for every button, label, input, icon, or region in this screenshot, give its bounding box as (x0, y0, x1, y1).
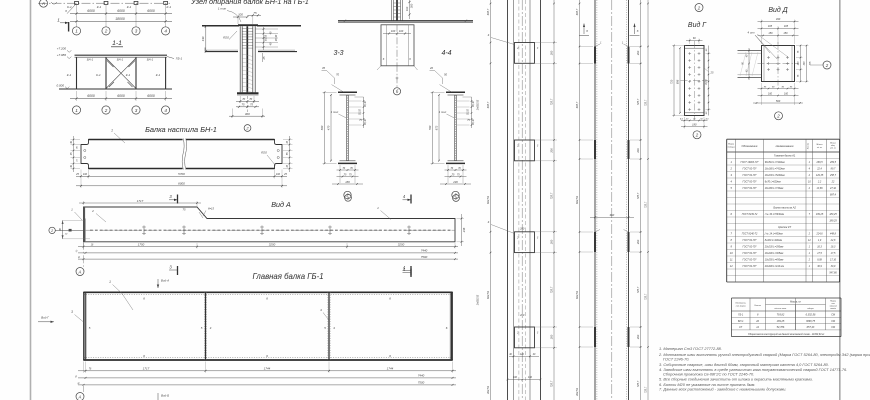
svg-text:300: 300 (245, 112, 250, 116)
Vid A section flag 3 bottom (169, 265, 178, 276)
strip 1 inner 200 spacing labels (519, 228, 525, 318)
svg-text:6: 6 (143, 297, 145, 301)
svg-text:Главная балка А1: Главная балка А1 (774, 154, 796, 158)
strip 1 bottom dims 40 120 40 and 160 160 (507, 353, 542, 380)
svg-text:180: 180 (692, 122, 697, 126)
svg-text:10: 10 (808, 181, 811, 184)
svg-text:1744: 1744 (264, 367, 271, 371)
svg-text:70: 70 (336, 73, 339, 77)
svg-text:80: 80 (772, 86, 775, 88)
BN-1 right dim stack (283, 136, 293, 172)
BN-1 bubble 2 (right of title) (244, 125, 251, 132)
svg-text:1744: 1744 (387, 367, 394, 371)
svg-text:2: 2 (104, 108, 108, 113)
svg-text:6х70 L=620мм: 6х70 L=620мм (765, 181, 781, 184)
strip 2 edge weld segments at plate levels (595, 47, 629, 348)
svg-text:70: 70 (249, 97, 252, 101)
svg-text:5700: 5700 (178, 172, 185, 176)
Vid G top dim 60 (686, 37, 703, 44)
svg-text:К-1: К-1 (67, 5, 72, 9)
svg-text:70: 70 (350, 167, 353, 170)
svg-text:672: 672 (435, 125, 439, 130)
plan: axis circle A (40, 0, 48, 7)
svg-text:5: 5 (201, 326, 203, 330)
svg-text:18000: 18000 (115, 17, 125, 21)
Vid A bottom dim row 7440 (78, 249, 458, 254)
svg-text:6: 6 (266, 297, 268, 301)
Vid A left bubble 2 with leader (49, 227, 84, 236)
section 1-1 BN-1 labels (87, 57, 154, 61)
svg-text:55,55: 55,55 (265, 34, 268, 41)
svg-text:3: 3 (135, 29, 138, 34)
GB-1 leaders 1 3 4 (71, 280, 328, 322)
strip 2 outer right dim line (645, 0, 649, 400)
svg-text:Масса, кг: Масса, кг (790, 301, 802, 304)
svg-text:605,7: 605,7 (575, 8, 579, 15)
svg-text:1-1: 1-1 (112, 40, 122, 47)
svg-text:ГОСТ 82-70*: ГОСТ 82-70* (743, 239, 757, 242)
GB-1 end plates (85, 292, 452, 360)
svg-text:7. Данные всех расположений -: 7. Данные всех расположений - заводские … (659, 386, 787, 391)
svg-text:15: 15 (75, 249, 79, 253)
svg-text:200: 200 (636, 239, 640, 245)
svg-text:76: 76 (89, 369, 92, 371)
svg-text:70: 70 (450, 167, 453, 170)
BN-1 left dim stack (70, 136, 80, 172)
svg-text:4: 4 (164, 29, 167, 34)
GB-1 stiffeners (204, 292, 330, 360)
svg-text:15: 15 (286, 140, 289, 143)
strip 1 right dim extension ticks (535, 42, 558, 349)
section 1-1 K-1 column labels (67, 73, 161, 77)
svg-text:2: 2 (91, 209, 94, 213)
svg-text:ГОСТ 82-70*: ГОСТ 82-70* (743, 187, 757, 190)
svg-text:6,352,56: 6,352,56 (806, 314, 816, 317)
notes block (658, 346, 870, 391)
detail title: Uzel opiraniya balok BN-1 na GB-1 (top-cut) (190, 0, 309, 6)
BN-1 bottom dim row 6000 (76, 179, 287, 189)
svg-text:ГОСТ 82-70*: ГОСТ 82-70* (743, 259, 757, 262)
svg-text:40,40: 40,40 (364, 118, 367, 124)
svg-text:Главная балка ГБ-1: Главная балка ГБ-1 (252, 272, 323, 281)
svg-text:Обозначение: Обозначение (742, 144, 758, 148)
svg-text:Балка настила А2: Балка настила А2 (773, 206, 796, 210)
svg-text:10: 10 (730, 251, 733, 255)
svg-text:3: 3 (169, 265, 172, 270)
svg-text:6: 6 (266, 354, 268, 358)
svg-text:160: 160 (768, 92, 773, 95)
svg-text:8х200 L=200мм: 8х200 L=200мм (765, 239, 783, 242)
svg-text:1. Материал Ст3 ГОСТ 27772-88.: 1. Материал Ст3 ГОСТ 27772-88. (659, 346, 722, 351)
svg-text:позиции: позиции (728, 146, 736, 148)
svg-text:А: А (78, 269, 82, 274)
svg-text:16х180 L=7410мм: 16х180 L=7410мм (765, 168, 785, 171)
Vid A bottom dim row 1750 3250 3250 (78, 242, 458, 248)
section 1-1 columns (77, 57, 166, 89)
svg-text:448,8: 448,8 (830, 233, 837, 236)
Vid D weld leader 4 sht (748, 31, 788, 60)
Vid D left beam stub (738, 51, 762, 78)
svg-text:0.000: 0.000 (56, 84, 64, 88)
Vid A section flag 4 bottom (403, 265, 412, 276)
svg-text:завода: завода (829, 307, 836, 310)
svg-text:12: 12 (808, 239, 811, 242)
svg-text:75: 75 (242, 103, 245, 107)
svg-text:Вид Г: Вид Г (41, 316, 49, 320)
strip 1 hidden web dashed pair (519, 0, 526, 400)
Vid A bolt row dashes (90, 229, 452, 231)
svg-text:165: 165 (784, 25, 789, 28)
svg-text:50: 50 (700, 118, 703, 120)
svg-text:2: 2 (104, 29, 108, 34)
section 1-1 axis bubbles 1-4 (72, 106, 169, 114)
svg-text:258,7: 258,7 (829, 174, 837, 177)
svg-text:4: 4 (730, 180, 732, 184)
svg-text:17,5: 17,5 (831, 252, 836, 255)
svg-text:2: 2 (516, 236, 519, 239)
plan: dimension line 6000x3 (70, 9, 172, 15)
BN-1 beam outline with notched ends (81, 140, 282, 169)
svg-text:2: 2 (776, 114, 780, 119)
Vid D left dim stack (743, 48, 750, 80)
svg-text:602,53: 602,53 (486, 290, 490, 298)
svg-text:3868,75: 3868,75 (806, 320, 816, 323)
svg-text:75: 75 (798, 50, 800, 53)
section 1-1 cross bracing between axes 2-3 (106, 58, 136, 89)
svg-text:2: 2 (695, 133, 699, 138)
detail D: right dim of column 100 (405, 0, 414, 19)
svg-text:85: 85 (764, 86, 767, 88)
svg-text:289,5: 289,5 (829, 161, 837, 164)
svg-text:75: 75 (359, 119, 362, 122)
svg-text:7500: 7500 (418, 381, 425, 385)
detail C: right beam BN-1 flange lines (257, 26, 301, 52)
section 1-1 ground line and 0.000 mark (56, 84, 172, 90)
svg-text:236: 236 (462, 227, 466, 233)
svg-text:200: 200 (636, 334, 640, 340)
svg-text:17,16: 17,16 (830, 259, 837, 262)
svg-text:ГОСТ 82-70*: ГОСТ 82-70* (743, 252, 757, 255)
detail C: leader 1 tip (218, 7, 241, 23)
svg-text:55,55: 55,55 (360, 108, 362, 114)
svg-text:К-1: К-1 (167, 5, 172, 9)
svg-text:2. Монтажные швы выполнять руч: 2. Монтажные швы выполнять ручной электр… (658, 352, 870, 357)
svg-text:БН-1: БН-1 (738, 320, 744, 323)
svg-text:602,53: 602,53 (486, 195, 490, 203)
section 4-4 top-left weld flag dims (429, 66, 452, 92)
svg-text:общая: общая (807, 308, 814, 310)
svg-text:3: 3 (537, 332, 539, 335)
svg-text:2,2: 2,2 (817, 181, 822, 184)
strip 1 splice plates (515, 43, 539, 348)
svg-text:12: 12 (756, 326, 759, 329)
svg-text:200: 200 (519, 314, 525, 317)
svg-text:50: 50 (444, 73, 447, 77)
svg-text:Вид А: Вид А (271, 200, 291, 209)
svg-text:4: 4 (333, 326, 335, 330)
svg-text:2: 2 (808, 187, 811, 190)
svg-text:40: 40 (77, 255, 81, 259)
detail D: dims 100 100 inside box (383, 29, 411, 34)
svg-text:120: 120 (520, 353, 525, 356)
svg-text:4: 4 (210, 326, 212, 330)
GB-1 title: Glavnaya balka GB-1 (252, 272, 323, 281)
svg-text:2: 2 (808, 259, 811, 262)
svg-text:710: 710 (670, 79, 674, 84)
section 4-4 right bolt dim stack (457, 97, 475, 128)
Vid G bottom dims 40 50 50 40 / 180 (680, 117, 709, 129)
svg-text:696: 696 (676, 79, 680, 84)
svg-text:СМ: СМ (831, 326, 836, 329)
svg-text:б: б (396, 89, 399, 94)
svg-text:90: 90 (693, 118, 696, 120)
svg-text:3250: 3250 (398, 242, 405, 246)
svg-text:БН-1: БН-1 (147, 57, 154, 61)
svg-text:200: 200 (550, 148, 554, 154)
svg-text:Кол-во: Кол-во (808, 142, 810, 149)
Vid G plate rectangle (685, 46, 705, 116)
Vid A top dim 1717 (79, 199, 201, 207)
Vid A cross ticks on bolt row (142, 226, 411, 236)
svg-text:2: 2 (516, 47, 519, 50)
svg-text:Общая масса конструкций на дан: Общая масса конструкций на данной монтаж… (748, 333, 825, 336)
plan: column K-1 marks on axis (75, 1, 168, 4)
svg-text:40: 40 (509, 353, 512, 356)
svg-text:725,7: 725,7 (550, 380, 554, 387)
Vid A leaders 1 2 (71, 206, 391, 222)
svg-text:602,53: 602,53 (575, 195, 579, 203)
svg-text:40: 40 (746, 54, 749, 57)
lower table header texts (735, 300, 837, 310)
Vid G bottom bubble 2 (693, 131, 701, 139)
svg-text:725,7: 725,7 (645, 99, 648, 106)
svg-text:30,9: 30,9 (817, 265, 822, 268)
BN-1 break mark (182, 138, 186, 169)
sheet left frame line (30, 0, 32, 400)
svg-text:1: 1 (809, 161, 811, 164)
svg-text:40,40: 40,40 (472, 100, 475, 106)
Vid G left dims 710 696 (670, 45, 687, 117)
svg-text:6: 6 (389, 297, 391, 301)
Vid D top dim rows 330 / 165 165 / 150 150 (758, 17, 799, 44)
svg-text:45: 45 (76, 146, 79, 149)
svg-text:Вид А: Вид А (161, 279, 169, 283)
svg-text:3: 3 (537, 145, 539, 148)
svg-text:ГБ-1: ГБ-1 (176, 57, 183, 61)
svg-text:СМ: СМ (831, 320, 836, 323)
section 4-4 bottom flange (446, 161, 465, 164)
svg-text:ГОСТ 82-70*: ГОСТ 82-70* (743, 181, 757, 184)
section 3-3 leader 1 tip (331, 110, 347, 118)
svg-text:ГОСТ 82-70*: ГОСТ 82-70* (743, 168, 757, 171)
strip dim lines top tick marks (490, 3, 649, 5)
section 3-3 title (333, 50, 343, 57)
svg-text:3: 3 (730, 173, 732, 177)
svg-text:8х70: 8х70 (706, 79, 708, 85)
svg-text:100: 100 (83, 173, 88, 176)
svg-text:2: 2 (729, 167, 732, 171)
svg-text:4: 4 (403, 267, 406, 272)
svg-text:3250: 3250 (269, 242, 276, 246)
svg-text:1 тип: 1 тип (331, 110, 339, 114)
strip 1 centre axis dash-dot (521, 0, 523, 400)
svg-text:А: А (41, 1, 45, 6)
svg-text:725,7: 725,7 (550, 192, 554, 199)
svg-text:300: 300 (410, 3, 414, 8)
svg-text:200: 200 (550, 239, 554, 245)
svg-text:7440: 7440 (421, 249, 428, 253)
plan: section mark 1 flag (57, 18, 68, 32)
svg-text:4: 4 (809, 168, 811, 171)
svg-text:100: 100 (391, 29, 396, 33)
section 3-3 top-left weld flag dims (322, 66, 344, 92)
Vid A taper label 75 and weld flag (183, 207, 215, 219)
svg-text:725,7: 725,7 (550, 98, 554, 105)
svg-text:7440: 7440 (418, 374, 425, 378)
strip 1 (plan of GB-1): flange edge lines (508, 0, 541, 400)
svg-text:500: 500 (320, 125, 324, 130)
svg-text:2х602,53: 2х602,53 (477, 99, 480, 111)
svg-text:1: 1 (75, 108, 78, 113)
svg-text:б=15: б=15 (208, 207, 215, 211)
svg-text:1: 1 (377, 206, 379, 210)
svg-text:К-1: К-1 (96, 73, 101, 77)
detail D: leader ticks at box bottom (377, 57, 418, 70)
detail C: R20 label (223, 31, 237, 40)
svg-text:2: 2 (697, 5, 701, 10)
svg-text:70: 70 (458, 167, 461, 170)
svg-text:Кол-во: Кол-во (754, 305, 761, 307)
svg-text:5: 5 (324, 326, 326, 330)
svg-text:ГОСТ 8239-72: ГОСТ 8239-72 (742, 213, 758, 216)
plan: axis A line (38, 2, 170, 4)
svg-text:Крепеж КТ: Крепеж КТ (778, 225, 791, 229)
detail D: bubble b (393, 88, 400, 95)
svg-text:96х510 L=7420мм: 96х510 L=7420мм (765, 161, 785, 164)
svg-text:687,4: 687,4 (830, 194, 837, 197)
svg-text:100: 100 (405, 6, 409, 11)
svg-text:[ № 14 L=900мм: [ № 14 L=900мм (764, 233, 783, 236)
svg-text:+7.086: +7.086 (57, 53, 67, 57)
svg-text:ГОСТ 82-70*: ГОСТ 82-70* (743, 265, 757, 268)
svg-text:1: 1 (109, 280, 111, 284)
svg-text:150: 150 (768, 32, 773, 35)
plan: dimension line 18000 (70, 17, 172, 23)
svg-text:75: 75 (349, 173, 352, 176)
svg-text:22: 22 (831, 181, 835, 184)
svg-text:А: А (78, 394, 82, 399)
svg-text:289,5: 289,5 (816, 161, 824, 164)
svg-text:1: 1 (809, 246, 811, 249)
svg-text:40,40: 40,40 (364, 100, 367, 106)
svg-text:20х400 L=410 мм: 20х400 L=410 мм (764, 265, 785, 268)
svg-text:Узел опирания балок БН-1 на ГБ: Узел опирания балок БН-1 на ГБ-1 (190, 0, 309, 6)
Vid A left dim 90 vertical (59, 221, 90, 239)
svg-text:16: 16 (91, 244, 94, 246)
svg-text:1: 1 (111, 129, 113, 133)
plan: tick marks on axis line (51, 2, 57, 4)
svg-text:2: 2 (245, 126, 249, 131)
svg-text:180: 180 (345, 180, 350, 184)
BN-1 end bolt holes (84, 149, 280, 158)
svg-text:54,786: 54,786 (777, 326, 785, 329)
svg-text:1: 1 (809, 265, 811, 268)
svg-text:40: 40 (705, 48, 708, 51)
svg-text:500: 500 (776, 99, 781, 103)
svg-text:15: 15 (286, 164, 289, 167)
svg-text:БН-1: БН-1 (117, 57, 124, 61)
svg-text:10: 10 (77, 159, 79, 162)
svg-text:К-1: К-1 (67, 73, 72, 77)
Vid G centre axes (681, 41, 709, 120)
svg-text:547,86: 547,86 (829, 272, 837, 275)
svg-text:8,08: 8,08 (817, 259, 822, 262)
Vid D title (768, 6, 787, 14)
Vid G bubble 2 above (695, 4, 703, 12)
svg-text:40: 40 (746, 69, 749, 72)
main table row texts (729, 154, 837, 275)
svg-text:4: 4 (403, 194, 406, 199)
svg-text:4-4: 4-4 (441, 50, 451, 57)
section 1-1 GB-1 leader label (167, 57, 183, 61)
section 4-4 title (441, 50, 451, 57)
section 1-1 dimension line 6000x3 (70, 91, 172, 101)
strip 2 centre axis dash-dot (611, 0, 613, 400)
main table header texts (728, 142, 836, 150)
GB-1 bottom dim row 7440 (78, 374, 456, 379)
strip 1 leader 4 labels (488, 33, 515, 234)
svg-text:70: 70 (342, 167, 345, 170)
svg-text:3-3: 3-3 (333, 50, 343, 57)
Vid A section flag 3 top (169, 194, 178, 204)
svg-text:725,7: 725,7 (636, 380, 640, 387)
Vid D bottom dim rows (753, 83, 803, 105)
svg-text:б: б (65, 9, 67, 13)
GB-1 beam rectangle (84, 292, 453, 360)
svg-text:75: 75 (467, 119, 470, 122)
svg-text:129,35: 129,35 (816, 174, 824, 177)
svg-text:К-1: К-1 (127, 5, 132, 9)
detail D: axis down to bubble b (396, 66, 399, 88)
svg-text:Балка настила БН-1: Балка настила БН-1 (145, 125, 217, 134)
svg-text:55,55: 55,55 (468, 108, 470, 114)
svg-text:4 шт: 4 шт (748, 31, 756, 35)
Vid A bubble 2 right (453, 195, 460, 202)
section 1-1 brace gusset doubling at top corners (107, 61, 135, 88)
svg-text:402,53: 402,53 (486, 385, 490, 393)
svg-text:изд. кг: изд. кг (830, 147, 836, 150)
svg-text:б: б (586, 29, 588, 33)
svg-text:90: 90 (59, 228, 62, 231)
svg-text:ГБ-1: ГБ-1 (738, 314, 744, 317)
Vid A title (271, 200, 291, 209)
svg-text:б: б (383, 57, 385, 61)
svg-text:75: 75 (452, 173, 455, 176)
svg-text:40,40: 40,40 (472, 118, 475, 124)
section 4-4 left dims 500 470 (428, 91, 445, 164)
svg-text:20: 20 (429, 66, 433, 70)
svg-text:300: 300 (804, 61, 806, 66)
svg-text:330: 330 (776, 17, 781, 21)
GB-1 bottom dim row 1717 1744 1744 (78, 362, 456, 373)
svg-text:ная марка: ная марка (736, 306, 747, 308)
svg-text:11: 11 (730, 258, 733, 262)
svg-text:725,7: 725,7 (645, 386, 648, 393)
svg-text:R20: R20 (261, 151, 267, 155)
svg-text:4: 4 (320, 308, 322, 312)
svg-text:2: 2 (808, 233, 811, 236)
shared axis bubble A between Vid A and GB-1 (76, 242, 84, 276)
